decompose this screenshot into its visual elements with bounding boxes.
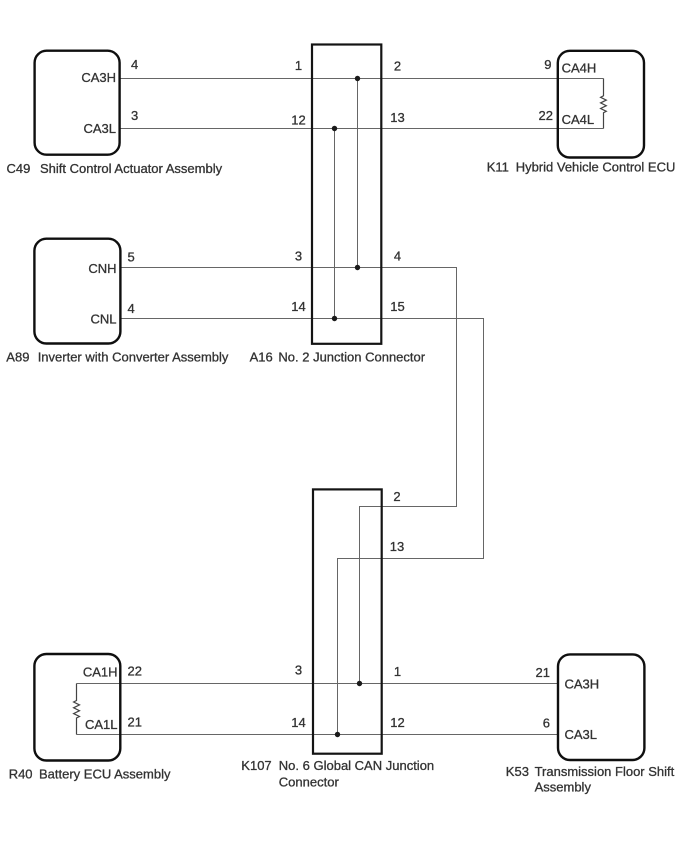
svg-text:K11: K11 bbox=[487, 160, 509, 175]
svg-text:14: 14 bbox=[291, 299, 305, 314]
svg-text:CA3H: CA3H bbox=[81, 70, 116, 85]
svg-text:C49: C49 bbox=[7, 161, 31, 176]
svg-text:13: 13 bbox=[390, 110, 404, 125]
svg-text:4: 4 bbox=[394, 249, 401, 264]
svg-text:CA4L: CA4L bbox=[562, 112, 595, 127]
svg-text:13: 13 bbox=[390, 539, 404, 554]
svg-text:CA3L: CA3L bbox=[83, 121, 116, 136]
svg-text:CA1H: CA1H bbox=[83, 665, 118, 680]
svg-text:3: 3 bbox=[131, 108, 138, 123]
svg-text:CA4H: CA4H bbox=[562, 61, 597, 76]
svg-text:Hybrid Vehicle Control ECU: Hybrid Vehicle Control ECU bbox=[516, 160, 676, 175]
svg-text:21: 21 bbox=[128, 715, 142, 730]
svg-text:Transmission Floor Shift: Transmission Floor Shift bbox=[535, 764, 675, 779]
svg-text:15: 15 bbox=[390, 299, 404, 314]
svg-text:K107: K107 bbox=[241, 758, 271, 773]
svg-text:Assembly: Assembly bbox=[535, 780, 592, 795]
svg-text:CA1L: CA1L bbox=[85, 717, 118, 732]
svg-text:CA3L: CA3L bbox=[565, 727, 598, 742]
svg-text:1: 1 bbox=[394, 664, 401, 679]
svg-text:1: 1 bbox=[295, 58, 302, 73]
svg-text:3: 3 bbox=[295, 662, 302, 677]
svg-text:5: 5 bbox=[128, 250, 135, 265]
svg-text:22: 22 bbox=[128, 664, 142, 679]
svg-text:Battery ECU Assembly: Battery ECU Assembly bbox=[39, 766, 171, 781]
svg-text:9: 9 bbox=[544, 57, 551, 72]
svg-text:Inverter with Converter Assemb: Inverter with Converter Assembly bbox=[38, 350, 229, 365]
svg-text:A89: A89 bbox=[6, 350, 29, 365]
svg-text:4: 4 bbox=[131, 57, 138, 72]
svg-text:2: 2 bbox=[394, 59, 401, 74]
svg-text:CNL: CNL bbox=[90, 312, 116, 327]
svg-text:14: 14 bbox=[291, 715, 305, 730]
svg-text:R40: R40 bbox=[9, 766, 33, 781]
svg-text:CNH: CNH bbox=[88, 261, 116, 276]
svg-text:12: 12 bbox=[390, 715, 404, 730]
svg-text:3: 3 bbox=[295, 249, 302, 264]
svg-text:Shift Control Actuator Assembl: Shift Control Actuator Assembly bbox=[40, 161, 223, 176]
svg-text:No. 2 Junction Connector: No. 2 Junction Connector bbox=[278, 350, 425, 365]
svg-text:Connector: Connector bbox=[279, 774, 340, 789]
svg-text:21: 21 bbox=[536, 665, 550, 680]
svg-text:6: 6 bbox=[543, 715, 550, 730]
svg-text:CA3H: CA3H bbox=[565, 677, 600, 692]
svg-text:K53: K53 bbox=[506, 764, 529, 779]
svg-text:22: 22 bbox=[539, 108, 553, 123]
svg-text:2: 2 bbox=[393, 489, 400, 504]
svg-text:A16: A16 bbox=[250, 350, 273, 365]
svg-text:4: 4 bbox=[128, 301, 135, 316]
svg-text:No. 6 Global CAN Junction: No. 6 Global CAN Junction bbox=[279, 758, 434, 773]
svg-text:12: 12 bbox=[291, 113, 305, 128]
